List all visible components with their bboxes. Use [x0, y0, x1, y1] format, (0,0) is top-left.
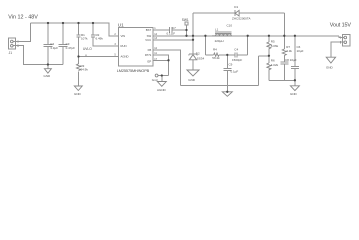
svg-text:RT/S: RT/S [145, 53, 151, 57]
svg-text:0.1µF: 0.1µF [231, 69, 239, 73]
svg-text:0.47µF: 0.47µF [66, 46, 76, 50]
svg-text:J1: J1 [9, 51, 13, 55]
svg-text:C10: C10 [227, 24, 233, 28]
svg-text:AGND: AGND [121, 55, 129, 59]
svg-text:3.3k: 3.3k [286, 49, 292, 53]
svg-text:D2: D2 [196, 52, 200, 56]
svg-text:SS34: SS34 [197, 56, 205, 60]
svg-text:56.2k: 56.2k [212, 56, 220, 60]
svg-text:GND: GND [188, 78, 196, 82]
svg-text:1500pF: 1500pF [232, 58, 242, 62]
svg-text:EP: EP [147, 59, 151, 63]
svg-text:8.06k: 8.06k [271, 44, 279, 48]
svg-text:ZHCS2000TA: ZHCS2000TA [232, 17, 250, 21]
svg-text:GND: GND [44, 74, 52, 78]
svg-text:SW1: SW1 [182, 18, 189, 22]
svg-text:D1: D1 [234, 5, 238, 9]
svg-text:Vout 15V: Vout 15V [330, 22, 352, 28]
svg-text:RUN: RUN [121, 44, 127, 48]
svg-text:R4: R4 [213, 48, 217, 52]
svg-text:10µF: 10µF [297, 49, 304, 53]
svg-text:Vin 12 - 48V: Vin 12 - 48V [8, 15, 38, 21]
svg-text:4.02k: 4.02k [271, 63, 279, 67]
svg-text:6.49k: 6.49k [96, 37, 104, 41]
svg-text:VCC: VCC [145, 38, 151, 42]
svg-text:L1: L1 [215, 28, 219, 32]
svg-text:54.9k: 54.9k [81, 68, 89, 72]
svg-text:BST: BST [146, 28, 152, 32]
svg-text:Gnd: Gnd [152, 78, 158, 82]
svg-text:AGND: AGND [157, 88, 167, 92]
svg-text:GND: GND [326, 65, 334, 69]
svg-text:C4: C4 [234, 47, 238, 51]
svg-text:U1: U1 [118, 23, 124, 28]
svg-text:0.1 µF: 0.1 µF [167, 31, 176, 35]
svg-text:220µH: 220µH [215, 39, 224, 43]
svg-text:3.3µF: 3.3µF [50, 46, 58, 50]
svg-text:GND: GND [290, 92, 298, 96]
svg-text:VIN: VIN [121, 34, 126, 38]
svg-text:107k: 107k [81, 37, 88, 41]
svg-text:C9: C9 [229, 62, 233, 66]
svg-text:UVLO: UVLO [83, 47, 92, 51]
svg-text:LM25575MH/NOPB: LM25575MH/NOPB [117, 68, 150, 73]
svg-text:FB: FB [148, 48, 152, 52]
svg-text:GND: GND [74, 92, 82, 96]
svg-text:C8 10µF: C8 10µF [285, 58, 297, 62]
svg-text:C7: C7 [172, 26, 176, 30]
svg-text:R5: R5 [271, 39, 275, 43]
